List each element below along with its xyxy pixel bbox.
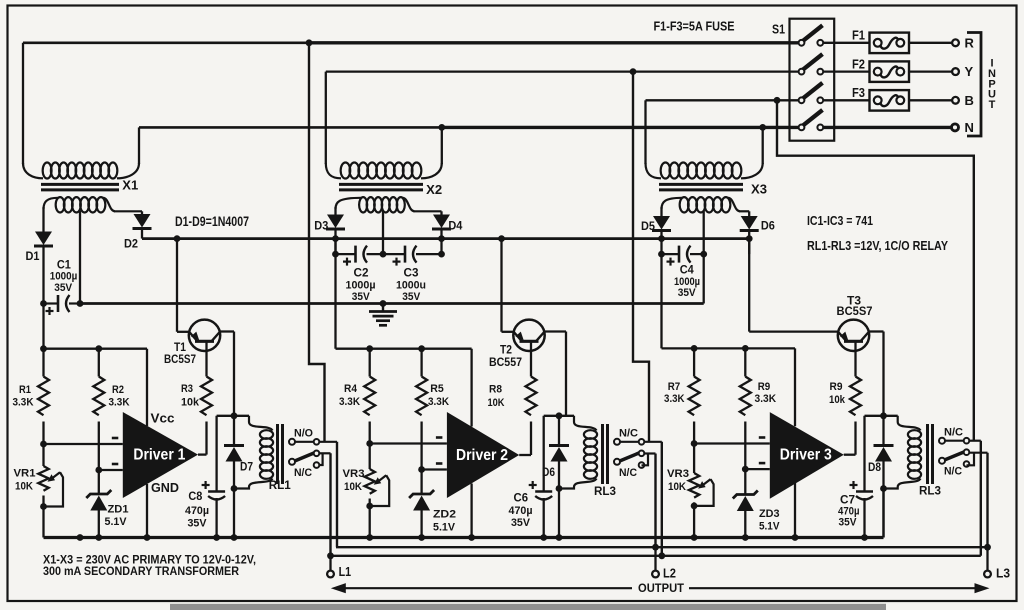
svg-text:35V: 35V bbox=[188, 518, 207, 530]
svg-text:D1-D9=1N4007: D1-D9=1N4007 bbox=[175, 214, 249, 229]
svg-text:RL3: RL3 bbox=[594, 484, 616, 498]
svg-text:5.1V: 5.1V bbox=[105, 516, 127, 528]
svg-text:X1: X1 bbox=[122, 179, 138, 193]
svg-text:RL1-RL3 =12V, 1C/O RELAY: RL1-RL3 =12V, 1C/O RELAY bbox=[807, 238, 948, 253]
svg-text:R5: R5 bbox=[430, 383, 444, 395]
svg-text:300 mA SECONDARY TRANSFORMER: 300 mA SECONDARY TRANSFORMER bbox=[43, 566, 240, 578]
svg-text:10k: 10k bbox=[829, 394, 846, 406]
svg-text:BC557: BC557 bbox=[489, 357, 522, 369]
svg-text:F1-F3=5A FUSE: F1-F3=5A FUSE bbox=[654, 18, 735, 33]
svg-text:BC5S7: BC5S7 bbox=[837, 306, 873, 318]
svg-text:35V: 35V bbox=[839, 517, 857, 529]
svg-text:35V: 35V bbox=[54, 282, 72, 294]
svg-text:IC1-IC3 = 741: IC1-IC3 = 741 bbox=[807, 213, 873, 228]
svg-text:ZD2: ZD2 bbox=[433, 509, 456, 521]
svg-text:N: N bbox=[965, 120, 974, 135]
svg-text:T2: T2 bbox=[500, 345, 512, 357]
svg-text:X3: X3 bbox=[751, 183, 767, 197]
svg-text:D4: D4 bbox=[448, 221, 463, 233]
svg-text:R7: R7 bbox=[668, 381, 681, 393]
svg-text:X2: X2 bbox=[426, 183, 442, 197]
svg-text:L2: L2 bbox=[663, 567, 676, 581]
svg-text:GND: GND bbox=[151, 481, 179, 495]
svg-text:Y: Y bbox=[965, 64, 974, 79]
svg-text:5.1V: 5.1V bbox=[759, 521, 780, 533]
svg-text:35V: 35V bbox=[511, 517, 530, 529]
svg-text:1000µ: 1000µ bbox=[346, 280, 376, 292]
svg-text:N/C: N/C bbox=[944, 466, 962, 478]
svg-text:VR3: VR3 bbox=[667, 468, 689, 480]
svg-text:F1: F1 bbox=[852, 29, 865, 43]
svg-text:R: R bbox=[965, 35, 975, 50]
svg-text:R9: R9 bbox=[758, 381, 771, 393]
svg-text:5.1V: 5.1V bbox=[433, 522, 455, 534]
svg-text:B: B bbox=[965, 93, 974, 108]
svg-text:ZD3: ZD3 bbox=[759, 508, 780, 520]
svg-text:3.3K: 3.3K bbox=[664, 393, 685, 405]
svg-text:RL1: RL1 bbox=[269, 478, 291, 492]
svg-text:C2: C2 bbox=[354, 268, 369, 280]
svg-text:3.3K: 3.3K bbox=[13, 396, 35, 408]
svg-text:C6: C6 bbox=[514, 493, 529, 505]
svg-text:D6: D6 bbox=[542, 467, 555, 479]
svg-text:R4: R4 bbox=[344, 383, 358, 395]
svg-text:L3: L3 bbox=[996, 566, 1010, 580]
svg-text:3.3K: 3.3K bbox=[428, 396, 450, 408]
svg-text:Driver 3: Driver 3 bbox=[780, 447, 832, 464]
svg-text:N/C: N/C bbox=[294, 467, 312, 479]
svg-text:D6: D6 bbox=[761, 221, 775, 233]
svg-text:Driver 1: Driver 1 bbox=[133, 447, 185, 464]
svg-text:D2: D2 bbox=[124, 239, 138, 251]
svg-text:L1: L1 bbox=[339, 565, 352, 579]
svg-text:R2: R2 bbox=[112, 384, 124, 396]
svg-text:N/C: N/C bbox=[619, 428, 638, 440]
svg-text:35V: 35V bbox=[402, 291, 420, 303]
svg-text:BC5S7: BC5S7 bbox=[164, 354, 196, 366]
svg-text:ZD1: ZD1 bbox=[108, 504, 129, 516]
svg-text:C4: C4 bbox=[680, 265, 695, 277]
svg-text:10k: 10k bbox=[181, 396, 200, 408]
svg-text:3.3K: 3.3K bbox=[339, 396, 361, 408]
svg-text:10K: 10K bbox=[488, 397, 506, 409]
svg-text:N/O: N/O bbox=[294, 428, 313, 440]
svg-text:3.3K: 3.3K bbox=[109, 396, 131, 408]
svg-text:10K: 10K bbox=[668, 481, 687, 493]
svg-text:F3: F3 bbox=[852, 86, 865, 100]
svg-text:OUTPUT: OUTPUT bbox=[638, 581, 684, 595]
svg-text:D8: D8 bbox=[868, 462, 882, 474]
svg-text:D7: D7 bbox=[240, 462, 253, 474]
svg-text:470µ: 470µ bbox=[185, 505, 209, 517]
svg-text:R9: R9 bbox=[830, 381, 843, 393]
svg-text:X1-X3 = 230V AC PRIMARY TO 12V: X1-X3 = 230V AC PRIMARY TO 12V-0-12V, bbox=[43, 555, 256, 567]
svg-text:C3: C3 bbox=[404, 268, 419, 280]
svg-text:10K: 10K bbox=[15, 481, 34, 493]
svg-text:1000µ: 1000µ bbox=[50, 270, 78, 282]
svg-text:D5: D5 bbox=[641, 221, 656, 233]
svg-text:1000u: 1000u bbox=[396, 280, 426, 292]
svg-text:10K: 10K bbox=[344, 481, 363, 493]
svg-text:VR3: VR3 bbox=[343, 468, 365, 480]
svg-text:S1: S1 bbox=[772, 22, 785, 37]
svg-text:35V: 35V bbox=[352, 291, 370, 303]
svg-text:R8: R8 bbox=[489, 384, 502, 396]
svg-text:R3: R3 bbox=[181, 383, 193, 395]
svg-text:RL3: RL3 bbox=[919, 484, 941, 498]
svg-text:C8: C8 bbox=[188, 491, 203, 503]
svg-text:Driver 2: Driver 2 bbox=[456, 447, 508, 464]
svg-text:35V: 35V bbox=[678, 287, 696, 299]
svg-text:F2: F2 bbox=[852, 57, 865, 71]
svg-text:Vcc: Vcc bbox=[151, 412, 175, 426]
svg-text:T1: T1 bbox=[174, 342, 187, 354]
svg-text:N/C: N/C bbox=[944, 426, 963, 438]
svg-text:3.3K: 3.3K bbox=[755, 393, 777, 405]
svg-text:N/C: N/C bbox=[619, 467, 637, 479]
svg-text:D1: D1 bbox=[26, 251, 41, 263]
svg-text:D3: D3 bbox=[314, 221, 328, 233]
svg-text:470µ: 470µ bbox=[509, 505, 533, 517]
svg-text:VR1: VR1 bbox=[14, 468, 36, 480]
svg-text:T: T bbox=[989, 99, 996, 111]
svg-text:R1: R1 bbox=[19, 384, 31, 396]
